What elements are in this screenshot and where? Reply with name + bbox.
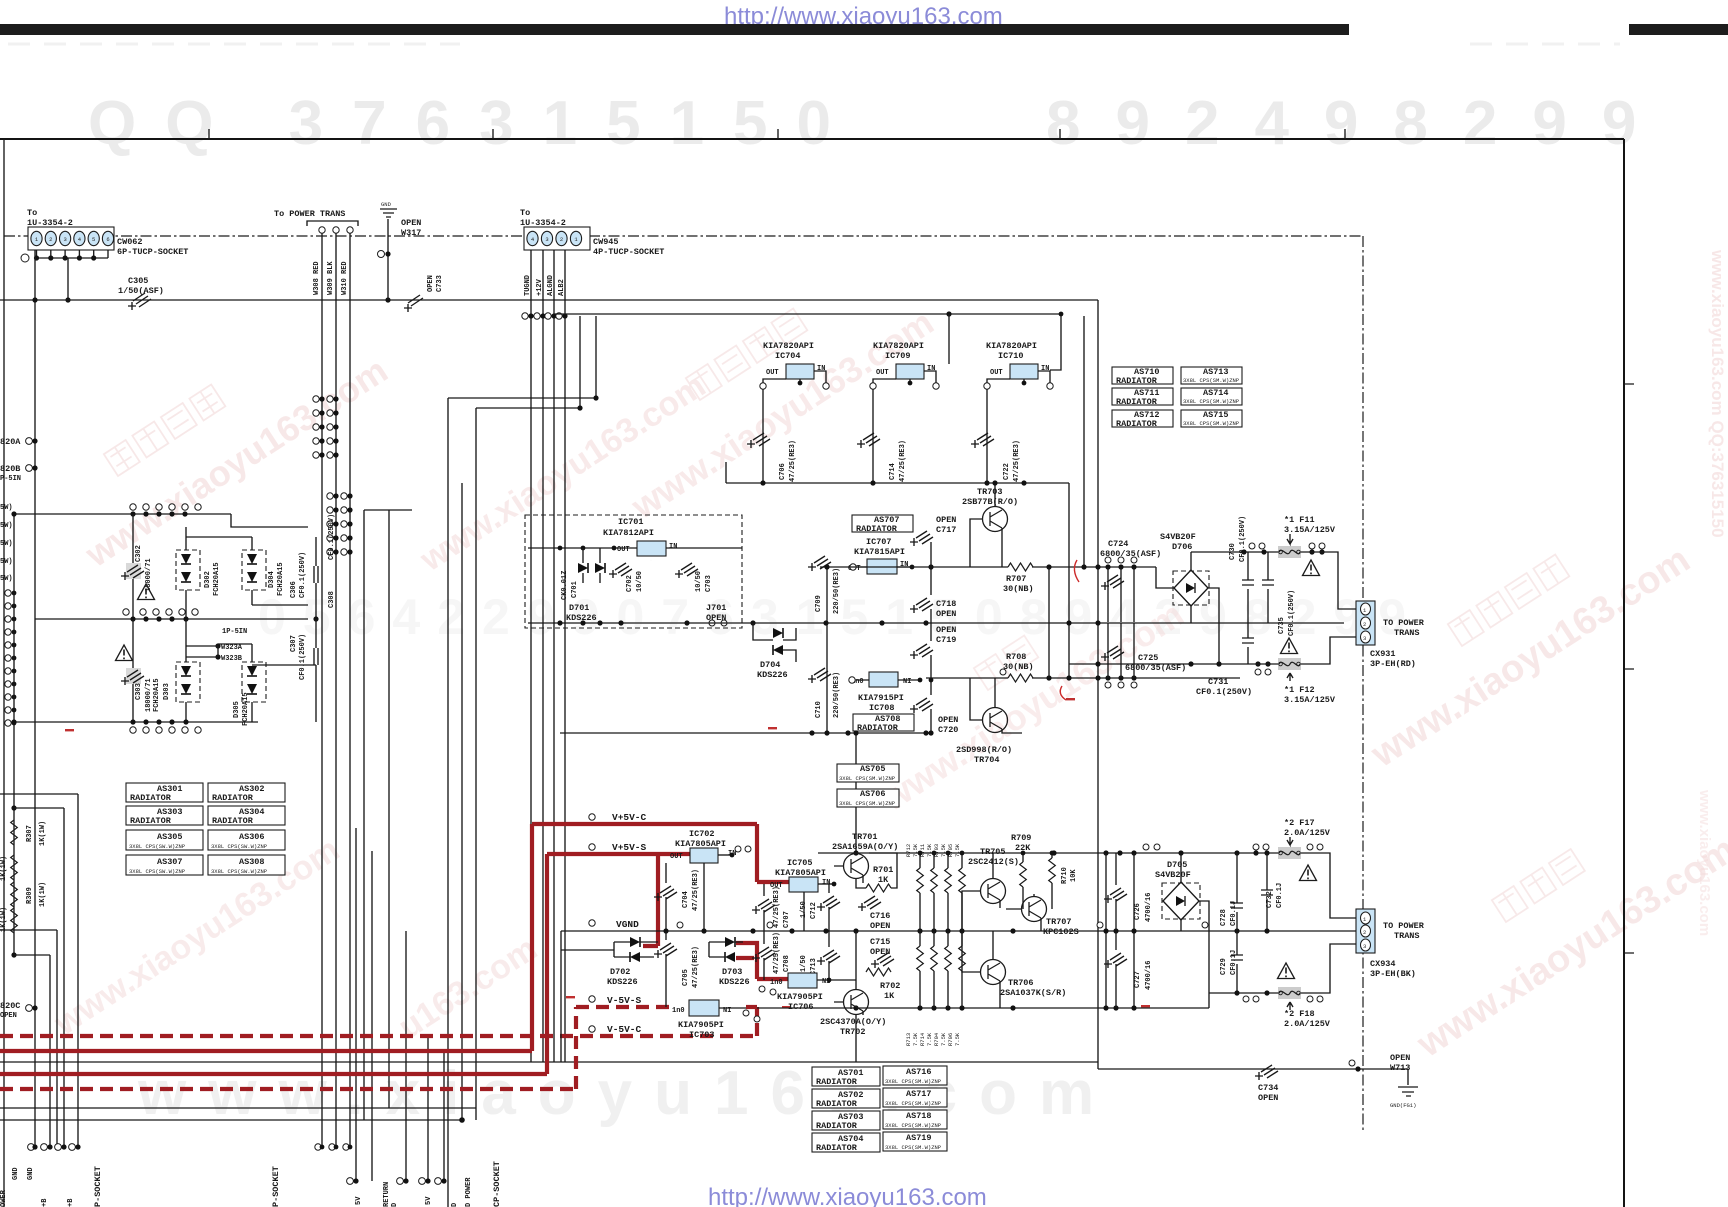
- svg-text:RADIATOR: RADIATOR: [1116, 397, 1158, 407]
- svg-text:OPEN: OPEN: [936, 515, 956, 525]
- svg-text:OPEN: OPEN: [870, 921, 890, 931]
- svg-text:KIA7905PI: KIA7905PI: [678, 1020, 724, 1030]
- svg-text:D704: D704: [760, 660, 780, 670]
- wire L-route 2: [14, 808, 64, 1147]
- svg-text:10/50: 10/50: [695, 571, 703, 592]
- svg-text:KDS226: KDS226: [607, 977, 638, 987]
- svg-text:IN: IN: [1041, 365, 1049, 373]
- ground GND(FG1): [1363, 1069, 1418, 1096]
- svg-text:1n0: 1n0: [770, 979, 783, 987]
- svg-text:C726: C726: [1134, 903, 1142, 920]
- wire bridge right: [1208, 588, 1219, 664]
- wire center verticals to bottom: [356, 398, 476, 1207]
- svg-text:*2 F17: *2 F17: [1284, 818, 1315, 828]
- svg-text:3X8L CPS(SM.W)ZNP: 3X8L CPS(SM.W)ZNP: [1183, 420, 1239, 427]
- resistor bank R307/R309 1K(1W): [11, 805, 16, 810]
- heatsink label box AS710 RADIATOR: [1112, 367, 1173, 386]
- capacitor C733 OPEN on AC rail: [404, 295, 423, 312]
- svg-text:C306: C306: [290, 581, 298, 598]
- svg-text:AS305: AS305: [157, 832, 183, 842]
- diode D703 KDS226: [725, 937, 735, 947]
- svg-text:CX934: CX934: [1370, 959, 1396, 969]
- capacitor C708 47/25(RE3): [752, 947, 775, 962]
- svg-text:CF0.1(250V): CF0.1(250V): [1196, 687, 1252, 697]
- heatsink label box AS713: [1181, 367, 1242, 384]
- wire vertical x1106: [1105, 853, 1107, 1008]
- svg-text:C727: C727: [1134, 971, 1142, 988]
- wire rectifier mid rail y619: [35, 618, 308, 620]
- wire regulator feed y398: [448, 397, 596, 399]
- warning triangle rectifier bottom: [116, 645, 133, 661]
- svg-text:KPC102S: KPC102S: [1043, 927, 1079, 937]
- svg-text:3X8L CPS(SW.W)ZNP: 3X8L CPS(SW.W)ZNP: [129, 843, 185, 850]
- watermark pink diagonal group 4 (centre lower): [873, 593, 1190, 819]
- svg-text:C724: C724: [1108, 539, 1128, 549]
- svg-text:FCH20A15: FCH20A15: [277, 562, 285, 596]
- frame tick marks on top rule: [209, 129, 1345, 139]
- svg-text:47/25(RE3): 47/25(RE3): [773, 932, 781, 974]
- svg-text:GND: GND: [27, 1167, 35, 1180]
- svg-text:820B: 820B: [0, 464, 20, 474]
- wire F11 to CX931 pin1: [1301, 552, 1357, 609]
- svg-text:1K(1W): 1K(1W): [39, 821, 47, 846]
- capacitor C720 OPEN: [910, 698, 933, 713]
- wire regulator feed y408: [476, 407, 580, 409]
- svg-text:5W): 5W): [0, 504, 13, 512]
- fuse F12 3.15A/125V: [1278, 658, 1301, 670]
- svg-text:3P-EH(RD): 3P-EH(RD): [1370, 659, 1416, 669]
- svg-text:AS715: AS715: [1203, 410, 1229, 420]
- svg-text:OPEN: OPEN: [870, 947, 890, 957]
- svg-text:C731: C731: [1208, 677, 1228, 687]
- svg-text:2.0A/125V: 2.0A/125V: [1284, 1019, 1331, 1029]
- svg-text:1n0: 1n0: [672, 1007, 685, 1015]
- wire x1049: [1048, 567, 1050, 678]
- svg-text:3: 3: [545, 236, 548, 243]
- capacitor C727 4700/16: [1104, 953, 1127, 968]
- svg-text:C733: C733: [436, 275, 444, 292]
- red bus stub IC702 to D702: [643, 854, 658, 946]
- svg-text:RADIATOR: RADIATOR: [816, 1143, 858, 1153]
- capacitor C717 OPEN: [910, 531, 933, 546]
- svg-text:D: D: [391, 1203, 399, 1207]
- svg-text:C706: C706: [779, 463, 787, 480]
- capacitor C726 4700/16: [1104, 888, 1127, 903]
- svg-text:http://www.xiaoyu163.com: http://www.xiaoyu163.com: [708, 1184, 987, 1207]
- svg-text:AS306: AS306: [239, 832, 265, 842]
- svg-text:RADIATOR: RADIATOR: [816, 1099, 858, 1109]
- wire rail y1008: [757, 993, 1209, 1008]
- wire branch x580: [579, 316, 581, 408]
- regulator IC706 KIA7905PI: [788, 973, 817, 988]
- svg-text:C715: C715: [870, 937, 890, 947]
- svg-text:3X8L CPS(SM.W)ZNP: 3X8L CPS(SM.W)ZNP: [839, 775, 895, 782]
- svg-text:C307: C307: [290, 635, 298, 652]
- resistor R708 30(NB): [1008, 674, 1033, 682]
- svg-text:OPEN: OPEN: [427, 275, 435, 292]
- wire rail y567: [820, 567, 1175, 588]
- red minus marks: [65, 698, 1150, 1008]
- svg-text:7.5K: 7.5K: [940, 843, 947, 857]
- heatsink label box AS307: [126, 855, 203, 875]
- svg-text:TR702: TR702: [840, 1027, 866, 1037]
- heatsink label box AS702 RADIATOR: [812, 1089, 880, 1109]
- capacitor C702 10/50: [609, 563, 632, 578]
- capacitor C707 47/25(RE3): [752, 899, 775, 914]
- red bus V+5V-C: [0, 824, 789, 1051]
- svg-text:30(NB): 30(NB): [1003, 584, 1034, 594]
- svg-text:TR704: TR704: [974, 755, 1000, 765]
- svg-text:C725: C725: [1138, 653, 1158, 663]
- capacitor C709 220/50(RE3): [808, 556, 831, 571]
- heatsink label box AS301 RADIATOR: [126, 783, 203, 803]
- svg-text:7.5K: 7.5K: [912, 843, 919, 857]
- heatsink label box AS704 RADIATOR: [812, 1133, 880, 1153]
- junction pin row above y619: [123, 609, 198, 615]
- svg-text:TR706: TR706: [1008, 978, 1034, 988]
- svg-text:IN: IN: [927, 365, 935, 373]
- watermark pink diagonal group 3 (upper right): [1363, 539, 1697, 776]
- svg-text:C717: C717: [936, 525, 956, 535]
- wire VGND drop x561: [560, 931, 562, 1062]
- watermark pink diagonal group 2 (upper centre): [413, 301, 941, 579]
- svg-text:R307: R307: [26, 825, 34, 842]
- svg-text:1K(1W): 1K(1W): [39, 882, 47, 907]
- svg-text:KIA7815API: KIA7815API: [854, 547, 905, 557]
- wire AC rail y300: [0, 299, 1098, 301]
- svg-text:RADIATOR: RADIATOR: [1116, 419, 1158, 429]
- resistor R702 1K: [866, 968, 891, 976]
- svg-text:CF0.1(250V): CF0.1(250V): [328, 514, 336, 560]
- heatsink label box AS705: [837, 764, 899, 782]
- svg-text:1K(1W): 1K(1W): [0, 907, 8, 932]
- svg-text:P-SOCKET: P-SOCKET: [93, 1166, 103, 1207]
- svg-text:W323B: W323B: [221, 655, 243, 663]
- svg-text:3X8L CPS(SM.W)ZNP: 3X8L CPS(SM.W)ZNP: [885, 1078, 941, 1085]
- svg-text:AS713: AS713: [1203, 367, 1229, 377]
- wire IN feed drops from +12V rail: [948, 314, 950, 364]
- warning triangle near F12: [1281, 638, 1298, 654]
- wire corner x1069: [1068, 483, 1070, 678]
- svg-text:C303: C303: [135, 683, 143, 700]
- red bus V-5V-C dashed: [0, 1007, 757, 1036]
- svg-text:C718: C718: [936, 599, 956, 609]
- svg-text:5V: 5V: [355, 1196, 363, 1205]
- svg-text:OUT: OUT: [876, 369, 889, 377]
- wire x1084: [1083, 316, 1085, 567]
- svg-text:1K(1W): 1K(1W): [0, 856, 8, 881]
- connector CW945 4P-TUCP-SOCKET: [524, 227, 664, 257]
- svg-text:IC706: IC706: [788, 1002, 814, 1012]
- svg-text:6: 6: [106, 236, 109, 243]
- svg-text:GND: GND: [12, 1167, 20, 1180]
- voltage regulator IC701 dashed enclosure: [525, 515, 742, 628]
- svg-text:TO POWER: TO POWER: [1383, 921, 1425, 931]
- svg-text:4700/16: 4700/16: [1145, 961, 1153, 990]
- diode D701 KDS226: [578, 563, 588, 573]
- svg-text:D303: D303: [163, 683, 171, 700]
- heatsink label box AS306: [208, 830, 285, 850]
- svg-text:C720: C720: [938, 725, 958, 735]
- svg-text:892498299: 892498299: [1046, 89, 1671, 158]
- connector CX931 3P-EH(RD): [1356, 601, 1425, 669]
- svg-text:W310 RED: W310 RED: [341, 261, 349, 295]
- junction ladder pins on W308/W309: [313, 396, 339, 458]
- svg-text:3X8L CPS(SW.W)ZNP: 3X8L CPS(SW.W)ZNP: [129, 868, 185, 875]
- svg-text:OUT: OUT: [990, 369, 1003, 377]
- svg-text:820A: 820A: [0, 437, 21, 447]
- svg-text:OUT: OUT: [670, 853, 683, 861]
- left edge labels (5W) column: [0, 504, 13, 583]
- wire main mid rail y623: [528, 622, 1344, 624]
- capacitor C713 1/50: [817, 950, 840, 965]
- svg-text:CF0.1(250V): CF0.1(250V): [299, 634, 307, 680]
- svg-text:47/25(RE3): 47/25(RE3): [1013, 440, 1021, 482]
- heatsink label box AS716: [883, 1066, 947, 1085]
- svg-text:C722: C722: [1003, 463, 1011, 480]
- red bus stub IC703 right: [746, 1005, 757, 1009]
- svg-text:D POWER: D POWER: [465, 1177, 473, 1207]
- net dash-dot boundary horizontal: [4, 235, 1363, 237]
- svg-text:IC707: IC707: [866, 537, 892, 547]
- wire vertical x1134: [1133, 853, 1135, 1008]
- svg-text:+B: +B: [41, 1198, 49, 1207]
- transistor TR702 2SC4370A(O/Y): [844, 990, 869, 1015]
- svg-text:RADIATOR: RADIATOR: [856, 524, 898, 534]
- svg-text:QQ 376315150: QQ 376315150: [88, 89, 860, 158]
- svg-text:W323A: W323A: [221, 644, 243, 652]
- svg-text:OPEN: OPEN: [938, 715, 958, 725]
- svg-text:R710: R710: [1061, 867, 1069, 884]
- svg-text:3: 3: [1363, 635, 1366, 642]
- wire regulator common rail y483: [726, 482, 1069, 484]
- wire left bus vertical x35: [34, 250, 36, 1147]
- svg-text:220/50(RE3): 220/50(RE3): [833, 672, 841, 718]
- svg-text:R701: R701: [873, 865, 893, 875]
- svg-text:6P-TUCP-SOCKET: 6P-TUCP-SOCKET: [117, 247, 188, 257]
- svg-text:OPEN: OPEN: [0, 1012, 17, 1020]
- svg-text:D702: D702: [610, 967, 630, 977]
- heatsink label box AS305: [126, 830, 203, 850]
- svg-text:3.15A/125V: 3.15A/125V: [1284, 525, 1336, 535]
- svg-text:OWER: OWER: [0, 1189, 8, 1207]
- heatsink label box AS302 RADIATOR: [208, 783, 285, 803]
- svg-text:7.5K: 7.5K: [954, 843, 961, 857]
- wire bridge top to fuse rail y552: [1190, 552, 1192, 570]
- faint dashes under top bar: [8, 43, 1620, 46]
- svg-text:2: 2: [1363, 929, 1366, 936]
- transistor TR707 KPC102S: [1022, 897, 1047, 922]
- heatsink label box AS711 RADIATOR: [1112, 388, 1173, 407]
- svg-text:R709: R709: [1011, 833, 1031, 843]
- svg-text:C305: C305: [128, 276, 148, 286]
- watermark pink diagonal group 1 (left middle): [77, 349, 394, 575]
- svg-text:GND: GND: [381, 201, 392, 208]
- svg-text:CP-SOCKET: CP-SOCKET: [492, 1161, 502, 1207]
- capacitor C710 220/50(RE3): [808, 668, 831, 683]
- svg-text:R309: R309: [26, 887, 34, 904]
- svg-text:CF0.1(250V): CF0.1(250V): [299, 552, 307, 598]
- svg-text:CW062: CW062: [117, 237, 143, 247]
- wire +12V feed rail y314: [554, 313, 1061, 315]
- wire rail y1069: [1098, 1068, 1363, 1070]
- fuse F18 2.0A/125V: [1278, 987, 1301, 999]
- svg-text:TO POWER: TO POWER: [1383, 618, 1425, 628]
- wire L-route 1: [0, 794, 78, 1147]
- heatsink label box AS717: [883, 1088, 947, 1107]
- svg-text:*1 F11: *1 F11: [1284, 515, 1315, 525]
- svg-text:OPEN: OPEN: [1258, 1093, 1278, 1103]
- wire W308: [321, 231, 323, 1147]
- svg-text:3X8L CPS(SM.W)ZNP: 3X8L CPS(SM.W)ZNP: [885, 1100, 941, 1107]
- wire TR701 feed vertical x856: [855, 733, 857, 853]
- svg-text:R707: R707: [1006, 574, 1026, 584]
- wire rail y993 to F18: [1209, 944, 1357, 993]
- capacitor C718 OPEN: [910, 598, 933, 613]
- svg-text:KIA7820API: KIA7820API: [763, 341, 814, 351]
- red bus V-5V-S dashed: [0, 1007, 674, 1089]
- transistor TR706 2SA1037K(S/R): [981, 960, 1006, 985]
- svg-text:3X8L CPS(SM.W)ZNP: 3X8L CPS(SM.W)ZNP: [885, 1122, 941, 1129]
- svg-text:FCH20A15: FCH20A15: [242, 692, 250, 726]
- wire rail y664 to F12 and CX931 pin3: [1069, 637, 1357, 664]
- svg-text:5: 5: [92, 236, 95, 243]
- svg-text:C702: C702: [626, 575, 634, 592]
- wire W317 vertical: [387, 219, 389, 300]
- svg-text:FCH20A15: FCH20A15: [153, 678, 161, 712]
- capacitor C705 47/25(RE3): [654, 943, 677, 958]
- svg-text:AS719: AS719: [906, 1133, 932, 1143]
- svg-text:RADIATOR: RADIATOR: [130, 816, 172, 826]
- heatsink label box AS718: [883, 1110, 947, 1129]
- svg-text:R706: R706: [947, 1033, 954, 1046]
- svg-text:TRANS: TRANS: [1394, 628, 1420, 638]
- resistor R710 10K: [1049, 858, 1056, 883]
- warning triangle near F11: [1303, 560, 1320, 576]
- wire L-route 4: [0, 930, 57, 1147]
- wire W309: [335, 231, 337, 1147]
- wire bottom rail y1120: [0, 1119, 462, 1121]
- capacitor C706 47/25(RE3): [747, 433, 770, 448]
- diode D302 FCH20A15: [176, 550, 200, 590]
- svg-text:47/25(RE3): 47/25(RE3): [773, 886, 781, 928]
- red bus V+5V-S: [0, 854, 690, 1074]
- svg-text:P-SOCKET: P-SOCKET: [271, 1166, 281, 1207]
- capacitor C302 18000/71: [126, 563, 141, 579]
- wire CW062 drop to AC rail: [67, 258, 69, 300]
- svg-text:CF0.1(250V): CF0.1(250V): [1239, 516, 1247, 562]
- svg-text:TR707: TR707: [1046, 917, 1072, 927]
- svg-text:IC708: IC708: [869, 703, 895, 713]
- fuse F11 3.15A/125V: [1278, 546, 1301, 558]
- svg-text:2SC4370A(O/Y): 2SC4370A(O/Y): [820, 1017, 886, 1027]
- svg-text:C728: C728: [1220, 909, 1228, 926]
- heatsink label box AS303 RADIATOR: [126, 806, 203, 826]
- svg-text:3X8L CPS(SM.W)ZNP: 3X8L CPS(SM.W)ZNP: [885, 1144, 941, 1151]
- wire VGND rail y931: [561, 930, 1357, 932]
- svg-text:AS716: AS716: [906, 1067, 932, 1077]
- svg-text:2SA1037K(S/R): 2SA1037K(S/R): [1000, 988, 1066, 998]
- regulator IC708 KIA7915PI: [869, 672, 898, 687]
- wire CW062 pin stubs to bus: [37, 250, 109, 258]
- wire x14 vertical: [13, 514, 15, 955]
- svg-text:IC709: IC709: [885, 351, 911, 361]
- svg-text:3: 3: [1363, 943, 1366, 950]
- regulator IC701 body: [637, 541, 666, 556]
- svg-text:IC701: IC701: [618, 517, 644, 527]
- svg-text:AS308: AS308: [239, 857, 265, 867]
- heatsink label box AS701 RADIATOR: [812, 1067, 880, 1087]
- svg-text:IC705: IC705: [787, 858, 813, 868]
- watermark pink diagonal group 6 (bottom left): [47, 830, 544, 1046]
- svg-text:AS705: AS705: [860, 764, 886, 774]
- svg-text:VGND: VGND: [616, 919, 639, 930]
- svg-text:C735: C735: [1278, 617, 1286, 634]
- svg-text:KIA7915PI: KIA7915PI: [858, 693, 904, 703]
- svg-text:IC703: IC703: [689, 1030, 715, 1040]
- diode D305 FCH20A15: [242, 662, 266, 702]
- wire L-route 3: [14, 955, 50, 1147]
- svg-text:KIA7905PI: KIA7905PI: [777, 992, 823, 1002]
- svg-text:RADIATOR: RADIATOR: [1116, 376, 1158, 386]
- heatsink label box AS707 RADIATOR: [852, 515, 913, 534]
- svg-text:RADIATOR: RADIATOR: [212, 793, 254, 803]
- svg-text:R702: R702: [880, 981, 900, 991]
- svg-text:KIA7820API: KIA7820API: [873, 341, 924, 351]
- svg-text:3X8L CPS(SM.W)ZNP: 3X8L CPS(SM.W)ZNP: [839, 800, 895, 807]
- svg-text:www.xiaoyu163.com QQ:37631515: www.xiaoyu163.com QQ:376315150: [1708, 249, 1727, 538]
- svg-text:820C: 820C: [0, 1001, 20, 1011]
- svg-text:*2 F18: *2 F18: [1284, 1009, 1315, 1019]
- svg-text:220/50(RE3): 220/50(RE3): [833, 568, 841, 614]
- svg-text:W308 RED: W308 RED: [313, 261, 321, 295]
- svg-text:D705: D705: [1167, 860, 1187, 870]
- svg-text:47/25(RE3): 47/25(RE3): [692, 869, 700, 911]
- capacitor C734 OPEN: [1255, 1065, 1278, 1080]
- svg-text:AS718: AS718: [906, 1111, 932, 1121]
- svg-text:TR701: TR701: [852, 832, 878, 842]
- capacitor C303 18000/71: [126, 668, 141, 684]
- svg-text:IN: IN: [817, 365, 825, 373]
- svg-text:47/25(RE3): 47/25(RE3): [789, 440, 797, 482]
- svg-text:CF0.1(250V): CF0.1(250V): [1288, 590, 1296, 636]
- svg-text:J701: J701: [706, 603, 726, 613]
- svg-text:C716: C716: [870, 911, 890, 921]
- svg-text:IC710: IC710: [998, 351, 1024, 361]
- wire rectifier bottom rail y722: [14, 721, 316, 723]
- svg-text:R704: R704: [933, 1032, 940, 1046]
- svg-text:47/25(RE3): 47/25(RE3): [692, 946, 700, 988]
- svg-text:OUT: OUT: [617, 546, 630, 554]
- capacitor C714 47/25(RE3): [857, 433, 880, 448]
- heatsink label box AS719: [883, 1132, 947, 1151]
- svg-text:AS307: AS307: [157, 857, 183, 867]
- svg-text:7.5K: 7.5K: [926, 1032, 933, 1046]
- svg-text:3X8L CPS(SM.W)ZNP: 3X8L CPS(SM.W)ZNP: [1183, 398, 1239, 405]
- svg-text:IN: IN: [669, 543, 677, 551]
- top black bar right segment: [1629, 24, 1728, 35]
- svg-text:R713: R713: [905, 1033, 912, 1046]
- junction row CW945 y316: [522, 313, 568, 319]
- svg-text:R712: R712: [905, 844, 912, 857]
- svg-text:RADIATOR: RADIATOR: [816, 1077, 858, 1087]
- svg-text:S4VB20F: S4VB20F: [1155, 870, 1191, 880]
- svg-text:IC702: IC702: [689, 829, 715, 839]
- svg-text:5W): 5W): [0, 558, 13, 566]
- svg-text:D302: D302: [204, 571, 212, 588]
- svg-text:D706: D706: [1172, 542, 1192, 552]
- frame top rule: [0, 138, 1624, 140]
